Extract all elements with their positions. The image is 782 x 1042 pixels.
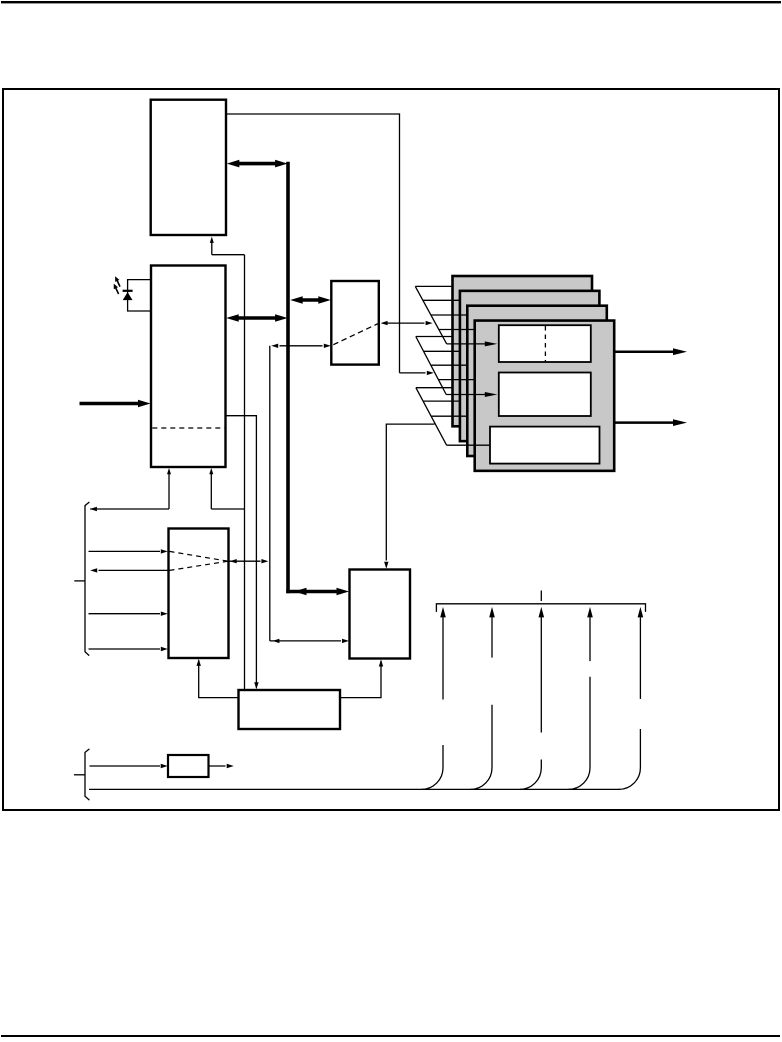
wire head into E top [384, 562, 388, 569]
wire head into E bottom [379, 660, 383, 667]
page top rule [1, 1, 781, 3]
switch C dashed lever [333, 323, 378, 344]
fan group 2 diagonal [416, 337, 446, 395]
signal into D 3 [89, 647, 168, 651]
fan group 3 branch 2 [423, 400, 461, 402]
register window 1 [499, 325, 591, 362]
fan group 1 branch 1 [415, 285, 453, 287]
block F [239, 690, 341, 729]
wire fan3 to E top [386, 424, 434, 560]
wire bracket2 to G [90, 764, 168, 768]
wire C-to-vertical double arrow [271, 344, 331, 348]
LED emission arrow 2 [114, 284, 119, 294]
wire head into D bottom [197, 659, 201, 666]
fan group 1 bottom arrow [447, 341, 498, 346]
wire A-right to fan2 horizontal [227, 113, 400, 115]
return net 4 [568, 607, 592, 790]
return net 2 [470, 607, 494, 790]
bracket 2 [85, 749, 89, 800]
register window 1 dashed divider [544, 326, 546, 361]
top bracket center tick [540, 591, 542, 602]
bus-C double arrow shaft [299, 298, 322, 302]
data bus vertical [286, 162, 290, 594]
block E [350, 570, 411, 659]
wire F-left to D [199, 660, 239, 697]
block D [169, 529, 229, 659]
bracket 2 tick [74, 774, 85, 776]
switch block C [331, 281, 379, 365]
fan group 1 branch 4 [439, 329, 476, 331]
block B dashed level line [152, 427, 225, 429]
wire net jog at top [212, 254, 245, 256]
bracket 1 tick [74, 580, 85, 582]
wire net vertical x244 [244, 255, 246, 690]
bus-B left head [226, 314, 239, 322]
bus-A right head [275, 160, 288, 168]
memory card 3 [467, 306, 607, 456]
fan group 3 bottom wire [447, 444, 491, 446]
LED loop wire [128, 280, 151, 311]
register window 3 [490, 427, 600, 464]
LED emission arrow 1 [115, 276, 120, 286]
block D dashed taper upper [170, 551, 229, 561]
signal into D 2 [89, 612, 168, 616]
fan group 2 branch 3 [431, 364, 468, 366]
memory card 4 [475, 321, 615, 471]
wire net branch up to B [209, 468, 213, 509]
fan group 3 branch 1 [416, 387, 454, 389]
bus-B right head [275, 314, 288, 322]
card output arrow 1 [614, 348, 687, 355]
wire corner to block E [270, 639, 349, 643]
bus corner to block E [286, 590, 337, 594]
wire to fan2 with head [400, 371, 434, 375]
wire bracket1 to B bottom [90, 507, 169, 511]
register window 2 [499, 373, 591, 417]
fan group 3 diagonal [416, 388, 447, 446]
input arrow to block B [80, 400, 151, 408]
bus-A left head [227, 160, 240, 168]
return net 5 [619, 607, 643, 790]
block A [151, 100, 226, 235]
memory card 1 [453, 276, 593, 426]
block G [168, 755, 209, 777]
page bottom rule [1, 1035, 780, 1037]
wire head into F top [254, 682, 258, 689]
wire net branch at 509 [211, 508, 244, 510]
signal into D 1 [89, 549, 168, 553]
bracket 1 [85, 502, 89, 656]
fan group 2 bottom arrow [446, 392, 497, 397]
return net 3 [520, 607, 544, 790]
wire up into B bottom [167, 468, 171, 509]
return net 1 [421, 607, 445, 790]
bus-C left head [290, 296, 303, 304]
wire D to vertical double arrow [230, 559, 269, 563]
fan group 2 branch 1 [416, 336, 454, 338]
signal out of D [90, 568, 168, 572]
block D dashed taper lower [170, 561, 229, 570]
fan group 2 branch 2 [424, 350, 461, 352]
wire A-right vertical x400 [399, 113, 401, 373]
wire B-right to F [226, 416, 256, 688]
card output arrow 2 [614, 419, 687, 426]
bus-A double arrow shaft [237, 162, 278, 166]
wire G out [209, 764, 234, 768]
LED triangle [123, 292, 133, 300]
fan group 2 branch 4 [438, 379, 475, 381]
bus-E right head [337, 588, 350, 596]
fan group 3 branch 3 [431, 415, 468, 417]
bus-B double arrow shaft [236, 316, 277, 320]
bus-E left head [294, 588, 307, 596]
block B [151, 266, 226, 468]
top bracket over nets [436, 604, 645, 612]
fan group 1 branch 2 [423, 299, 461, 301]
bus-C right head [318, 296, 331, 304]
memory card 2 [460, 291, 600, 441]
wire switch to fan1 [381, 321, 433, 325]
fan group 1 diagonal [415, 286, 446, 344]
bottom return line [89, 788, 620, 790]
LED cathode bar [123, 290, 133, 292]
wire F-right to E [340, 661, 381, 698]
wire net F-A-B up to A [210, 237, 214, 255]
figure frame [3, 89, 779, 810]
fan group 1 branch 3 [431, 314, 468, 316]
wire vertical x270 [269, 346, 271, 641]
